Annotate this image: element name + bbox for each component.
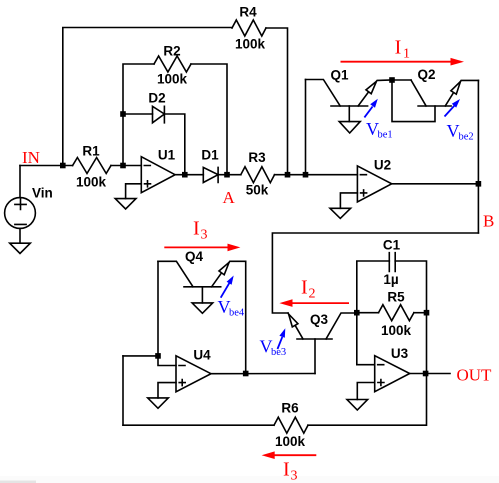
svg-text:R5: R5 [387,290,405,305]
junction D2 anode node [120,111,126,117]
wire Q4 emitter column [245,261,247,373]
junction Q1 emitter / Q2 node [389,77,395,83]
junction U4 output node [243,371,249,377]
svg-text:3: 3 [201,228,208,243]
svg-text:D2: D2 [148,91,165,106]
wire Vin bottom lead [19,228,21,243]
ground at U4 + input [148,398,169,408]
wire Q2 emitter down right side to node B [477,80,479,233]
svg-text:R6: R6 [281,401,299,416]
wire D2 anode [123,113,153,115]
wire top net from IN junction to R4 [63,28,232,166]
op-amp U2 [357,166,391,202]
svg-text:Vin: Vin [32,186,53,201]
diode D2 [153,106,165,123]
svg-text:be1: be1 [378,130,393,141]
svg-text:Q3: Q3 [310,312,329,327]
wire U4 inverting input branch [123,355,158,357]
svg-text:U1: U1 [158,148,176,163]
wire node B down and left to Q3 emitter [272,233,478,313]
svg-text:100k: 100k [76,175,107,190]
svg-text:R2: R2 [163,44,180,59]
svg-text:100k: 100k [275,434,306,449]
transistor Q2 [411,80,426,106]
svg-text:1µ: 1µ [383,272,398,287]
Vbe2 arrow [445,106,455,117]
svg-text:C1: C1 [383,238,401,253]
resistor R5 [379,305,414,321]
ground below Vin [10,243,31,253]
transistor Q3 [288,313,303,339]
resistor R3 [241,167,275,183]
svg-text:R3: R3 [248,150,266,165]
svg-text:1: 1 [403,47,410,62]
junction U4 inverting node [155,353,161,359]
ground at U3 + input [347,400,368,411]
resistor R6 [274,417,308,433]
svg-text:Q2: Q2 [417,67,435,82]
wire C1 right lead [395,261,426,313]
junction R5 right node [424,310,430,316]
wire R1 to U1 inverting input [111,165,141,167]
wire R6 right to OUT column [308,374,427,426]
ground at U1 + input [115,199,136,209]
wire Q1 emitter to Q2 collector [392,79,411,81]
wire Q4 collector column [157,261,159,356]
junction R4 column node [285,172,291,178]
ground at U2 + input [330,208,351,218]
ground at Q4 base [192,303,213,313]
wire R3 to U2 inverting input [275,174,358,176]
junction U1 output node [182,172,188,178]
wire IN to R1 [20,165,73,167]
svg-text:Q1: Q1 [330,68,349,83]
wire Vin top lead [19,166,21,198]
Vbe1 arrow [364,107,372,118]
wire Q1 collector branch down to node [305,80,307,175]
svg-text:be3: be3 [271,347,286,358]
wire R2 right down to node A [191,64,227,175]
wire Q3 base down to U4 output net [314,339,316,374]
svg-text:U4: U4 [193,348,211,363]
ground at Q1 base [339,122,360,133]
wire Q4 base to ground [201,287,203,303]
svg-text:IN: IN [22,148,40,167]
wire R2 left branch down to R1 junction [123,64,154,166]
wire C1 left lead [357,261,390,313]
svg-text:Q4: Q4 [185,249,204,264]
resistor R1 [73,158,111,174]
svg-text:I: I [193,218,200,240]
svg-text:be2: be2 [459,132,474,143]
wire U3 output to OUT [410,373,450,375]
wire left column down to bottom net [122,356,124,425]
wire Q1 base to ground [348,106,350,122]
wire U1 non-inverting input to ground [126,184,142,199]
wire U1 output to D1 [175,174,203,176]
svg-text:U2: U2 [374,158,391,173]
junction node A [224,172,230,178]
junction IN node [60,163,66,169]
svg-text:50k: 50k [246,183,269,198]
svg-text:OUT: OUT [457,366,493,385]
svg-text:be4: be4 [229,308,245,319]
junction Q1 column node [303,172,309,178]
wire U3 non-inverting input to ground [357,383,374,400]
current arrow I3 bottom [274,454,316,456]
svg-text:U3: U3 [391,346,409,361]
junction R5 left node [354,310,360,316]
resistor R4 [232,20,266,36]
svg-text:2: 2 [309,287,316,302]
svg-text:R1: R1 [82,144,100,159]
wire R4 right to node A column [266,28,288,175]
svg-text:100k: 100k [235,37,266,52]
wire R5 node down to U3 inverting input [357,313,375,365]
svg-text:100k: 100k [381,323,412,338]
svg-text:I: I [301,277,308,299]
svg-text:100k: 100k [157,72,188,87]
wire R5 right lead [414,312,427,314]
current arrow I3 top [164,246,229,248]
diode D1 [203,167,218,182]
op-amp U3 [375,356,410,392]
resistor R2 [154,56,191,72]
svg-text:3: 3 [291,469,298,483]
wire right column R5 to OUT node [426,313,428,374]
current arrow I2 [292,302,349,304]
op-amp U4 [176,356,211,392]
wire R5 left lead [357,312,379,314]
wire Q2 base loop [392,80,435,122]
wire bottom net to R6 [123,424,274,426]
svg-text:R4: R4 [239,5,257,20]
svg-text:I: I [283,459,290,481]
transistor Q4 [158,261,193,287]
Vbe3 arrow [278,337,283,349]
wire D2 cathode down to U1 output [164,114,184,175]
wire U4 output to Q3 base corner [211,373,315,375]
wire U2 non-inverting input to ground [340,193,357,208]
svg-text:I: I [395,37,402,59]
svg-text:A: A [223,188,236,207]
svg-text:B: B [483,212,494,231]
capacitor C1 [389,253,395,272]
transistor Q1 [306,80,341,107]
voltage source Vin [5,198,36,229]
Vbe4 arrow [221,283,230,298]
wire D1 cathode to node A [218,174,241,176]
junction R1 right node [120,163,126,169]
current arrow I1 [341,61,453,63]
wire U2 output to node B [392,183,479,185]
wire U4 non-inverting input to ground [158,383,176,398]
svg-text:D1: D1 [201,148,219,163]
junction OUT node [423,371,429,377]
junction node B [476,181,482,187]
op-amp U1 [141,157,175,193]
